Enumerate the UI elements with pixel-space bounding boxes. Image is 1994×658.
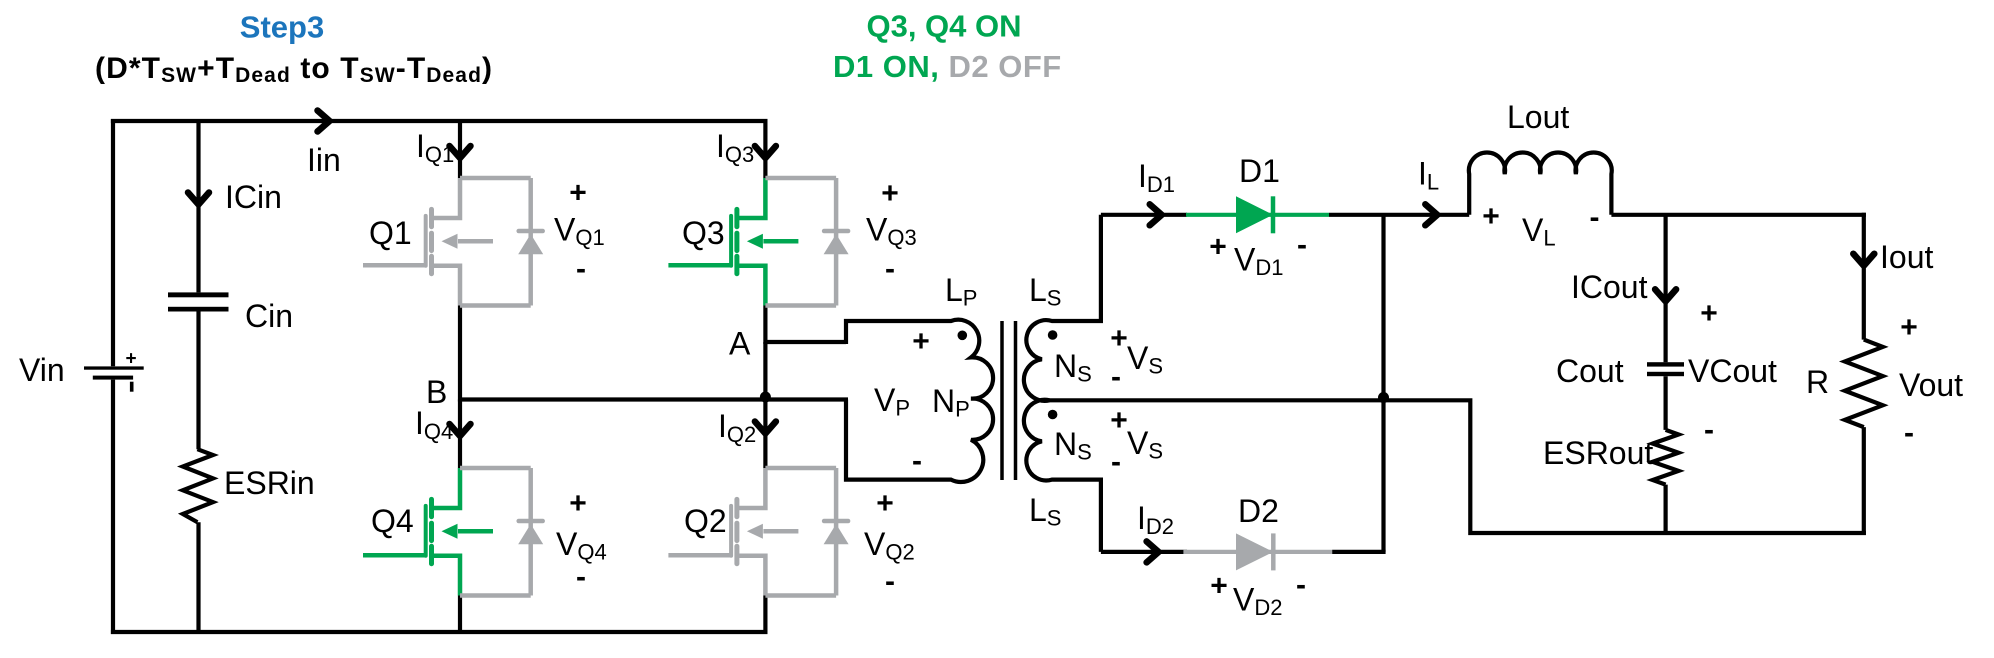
body diode of Q1 xyxy=(460,178,543,306)
wire node A rail xyxy=(765,340,846,344)
arrow Iin xyxy=(318,111,330,132)
svg-text:-: - xyxy=(885,253,895,286)
wire secondary top winding LS xyxy=(1024,215,1101,401)
secondary top phasing dot xyxy=(1048,330,1058,340)
wire node B rail xyxy=(460,397,848,401)
svg-text:+: + xyxy=(1209,231,1227,264)
svg-text:+: + xyxy=(912,325,930,358)
transistor Q4 xyxy=(363,468,493,596)
wire Q2 source to bottom rail xyxy=(763,596,767,635)
resistor R xyxy=(1845,340,1883,428)
wire load branch lower xyxy=(1862,427,1866,535)
battery minus mark xyxy=(130,382,134,392)
svg-text:D1 ON, D2 OFF: D1 ON, D2 OFF xyxy=(833,49,1062,84)
arrow IQ2 xyxy=(755,422,776,434)
arrow ICout xyxy=(1655,289,1676,301)
svg-text:+: + xyxy=(1900,311,1918,344)
svg-text:-: - xyxy=(1297,229,1307,262)
wire Q2 drain leg from node A xyxy=(763,342,767,468)
arrow ID2 xyxy=(1147,541,1159,562)
svg-text:+: + xyxy=(125,349,136,370)
battery Vin top plate xyxy=(84,366,144,369)
arrow IL xyxy=(1425,204,1437,225)
svg-text:Cout: Cout xyxy=(1556,353,1624,389)
svg-text:Step3: Step3 xyxy=(240,10,324,45)
svg-text:+: + xyxy=(1482,200,1500,233)
svg-text:Q1: Q1 xyxy=(369,215,412,251)
body diode of Q2 xyxy=(765,468,848,596)
wire D2 gray segment xyxy=(1183,550,1332,554)
arrow ICin xyxy=(188,193,209,205)
resistor ESRin xyxy=(183,449,213,522)
arrow ID1 xyxy=(1150,204,1162,225)
capacitor Cout xyxy=(1647,362,1684,366)
arrow IQ4 xyxy=(450,424,471,436)
wire load branch upper xyxy=(1862,213,1866,340)
svg-text:ESRin: ESRin xyxy=(224,465,315,501)
wire left vertical to battery xyxy=(111,119,115,366)
wire top rail Vin+ to bridge xyxy=(111,119,768,123)
junction hop at B over Q2 leg xyxy=(760,392,771,403)
svg-text:-: - xyxy=(576,561,586,594)
svg-text:-: - xyxy=(1904,417,1914,450)
svg-text:D2: D2 xyxy=(1238,493,1279,529)
svg-text:-: - xyxy=(912,445,922,478)
svg-text:Q2: Q2 xyxy=(684,503,727,539)
transistor Q3 xyxy=(668,178,798,306)
battery Vin bottom plate xyxy=(93,376,133,380)
svg-text:Q3, Q4 ON: Q3, Q4 ON xyxy=(866,9,1021,44)
transistor Q1 xyxy=(363,178,493,306)
wire primary loop with winding LP xyxy=(846,320,993,482)
svg-text:ICin: ICin xyxy=(225,179,282,215)
arrow Iout xyxy=(1853,254,1874,266)
svg-text:R: R xyxy=(1806,364,1829,400)
wire ESRin to bottom rail xyxy=(196,522,200,634)
inductor Lout xyxy=(1469,152,1612,214)
transistor Q2 xyxy=(668,468,798,596)
wire Cin to ESRin xyxy=(196,312,200,450)
svg-text:VCout: VCout xyxy=(1688,353,1777,389)
wire battery to bottom rail xyxy=(111,380,115,634)
svg-text:-: - xyxy=(1704,414,1714,447)
svg-text:+: + xyxy=(569,487,587,520)
svg-text:Vout: Vout xyxy=(1899,367,1963,403)
wire secondary bottom to D2 xyxy=(1101,550,1187,554)
svg-text:D1: D1 xyxy=(1239,153,1280,189)
svg-text:B: B xyxy=(426,374,447,410)
svg-text:Vin: Vin xyxy=(19,352,65,388)
wire Q1 drain leg xyxy=(458,119,462,178)
svg-text:Lout: Lout xyxy=(1507,99,1569,135)
wire center tap to output return xyxy=(1050,400,1866,533)
svg-text:Cin: Cin xyxy=(245,298,293,334)
wire secondary bottom winding LS xyxy=(1024,400,1101,552)
secondary bottom phasing dot xyxy=(1048,410,1058,420)
svg-text:Q3: Q3 xyxy=(682,215,725,251)
wire Q4 drain leg from node B xyxy=(458,400,462,469)
wire D1 green segment xyxy=(1186,213,1329,217)
body diode of Q4 xyxy=(460,468,543,596)
wire Cin branch upper xyxy=(196,119,200,292)
arrow IQ3 xyxy=(755,146,776,158)
svg-text:-: - xyxy=(1590,201,1600,234)
wire rectified node down to D2 return xyxy=(1381,215,1385,552)
svg-text:Q4: Q4 xyxy=(371,503,414,539)
svg-text:-: - xyxy=(885,565,895,598)
svg-text:-: - xyxy=(1111,361,1121,394)
svg-text:+: + xyxy=(1210,570,1228,603)
svg-text:Iin: Iin xyxy=(307,142,341,178)
wire Cout branch upper xyxy=(1663,215,1667,362)
body diode of Q3 xyxy=(765,178,848,306)
svg-text:A: A xyxy=(729,326,751,362)
diode D1 xyxy=(1236,196,1273,233)
svg-text:+: + xyxy=(1110,322,1128,355)
svg-text:+: + xyxy=(1110,404,1128,437)
wire secondary top to D1 xyxy=(1101,213,1187,217)
svg-text:-: - xyxy=(1111,446,1121,479)
wire D1 cathode to IL node xyxy=(1329,213,1469,217)
diode D2 xyxy=(1236,533,1273,570)
resistor ESRout xyxy=(1653,430,1679,485)
wire Q1 source to node B xyxy=(458,306,462,402)
svg-text:ICout: ICout xyxy=(1571,269,1648,305)
wire Q3 source to node A xyxy=(763,306,767,345)
wire bottom rail xyxy=(111,630,768,634)
wire ESRout to bottom rail xyxy=(1663,485,1667,535)
svg-text:-: - xyxy=(576,253,586,286)
svg-text:+: + xyxy=(876,487,894,520)
svg-text:-: - xyxy=(1296,569,1306,602)
svg-text:ESRout: ESRout xyxy=(1543,435,1653,471)
capacitor Cin xyxy=(168,292,229,297)
wire Q4 source to bottom rail xyxy=(458,596,462,635)
svg-text:+: + xyxy=(1700,297,1718,330)
svg-text:+: + xyxy=(881,177,899,210)
transformer core xyxy=(1000,321,1004,480)
wire Lout to load xyxy=(1611,213,1866,217)
junction hop at center tap crossing xyxy=(1378,392,1389,403)
primary phasing dot xyxy=(958,331,968,341)
wire D2 cathode to vertical xyxy=(1332,550,1385,554)
arrow IQ1 xyxy=(450,146,471,158)
wire Cout to ESRout xyxy=(1663,376,1667,430)
svg-text:Iout: Iout xyxy=(1880,239,1933,275)
svg-text:+: + xyxy=(569,177,587,210)
wire Q3 drain leg xyxy=(763,119,767,178)
